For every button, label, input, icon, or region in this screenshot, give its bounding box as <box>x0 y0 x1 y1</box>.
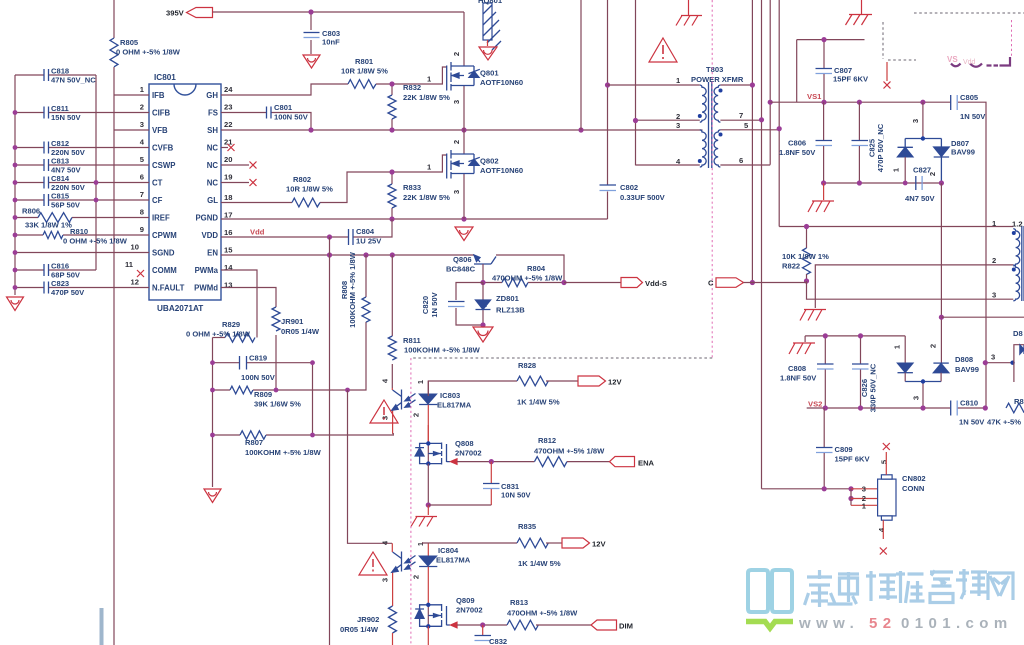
wire CN802 feed row <box>762 488 852 490</box>
svg-text:ZD801: ZD801 <box>496 294 520 303</box>
svg-text:52: 52 <box>869 615 897 632</box>
wire x581 top vertical <box>580 0 582 130</box>
svg-text:3: 3 <box>140 120 144 129</box>
X mark pin11 COMM <box>137 270 144 277</box>
capacitor C820 <box>421 283 483 326</box>
wire R807 to opto pin3 <box>393 433 394 435</box>
svg-text:C802: C802 <box>620 183 638 192</box>
svg-text:2: 2 <box>140 103 144 112</box>
wire T803 sec verticals <box>752 0 779 489</box>
svg-text:NC: NC <box>207 144 219 153</box>
resistor R801 <box>341 57 388 88</box>
svg-text:1: 1 <box>416 379 425 384</box>
svg-text:C832: C832 <box>489 637 507 645</box>
transformer right windings <box>992 219 1024 301</box>
connector CN802 <box>862 452 926 539</box>
svg-text:VS1: VS1 <box>807 92 822 101</box>
svg-text:C809: C809 <box>835 445 853 454</box>
junction dots C808 bus <box>823 333 863 338</box>
capacitor C810 <box>951 399 986 427</box>
svg-text:1: 1 <box>676 76 681 85</box>
svg-text:PWMd: PWMd <box>194 284 218 293</box>
svg-text:3: 3 <box>452 100 461 104</box>
svg-text:4: 4 <box>381 378 390 383</box>
svg-text:R810: R810 <box>70 227 88 236</box>
svg-text:POWER XFMR: POWER XFMR <box>691 75 744 84</box>
svg-text:CIFB: CIFB <box>152 109 171 118</box>
svg-text:Q809: Q809 <box>456 596 475 605</box>
svg-text:0 OHM +-5% 1/8W: 0 OHM +-5% 1/8W <box>116 48 181 57</box>
svg-text:VS: VS <box>947 55 958 64</box>
X mark pin20 NC <box>221 164 249 166</box>
ground below C803 <box>303 55 320 68</box>
svg-text:1U 25V: 1U 25V <box>356 237 382 246</box>
resistor R812 <box>534 436 610 467</box>
wire VS1 row <box>770 102 986 408</box>
junction dots Q808 <box>426 441 430 445</box>
svg-text:6: 6 <box>739 156 743 165</box>
wire R835 row <box>422 542 517 544</box>
svg-text:R802: R802 <box>293 175 311 184</box>
wire to Vdd-S <box>564 282 621 284</box>
svg-text:C818: C818 <box>51 67 69 76</box>
svg-text:EL817MA: EL817MA <box>437 401 472 410</box>
svg-text:18: 18 <box>224 193 232 202</box>
capacitor C801 <box>267 103 309 122</box>
svg-text:GL: GL <box>207 196 218 205</box>
svg-text:33K 1/8W 1%: 33K 1/8W 1% <box>25 221 72 230</box>
resistor R808 vertical <box>340 251 370 328</box>
svg-text:7: 7 <box>140 190 144 199</box>
svg-text:CPWM: CPWM <box>152 231 177 240</box>
junction dot D808 common <box>921 379 925 383</box>
resistor R806 <box>15 207 149 230</box>
wire VDD-EN drop x330 to bottom <box>329 237 331 645</box>
svg-text:1: 1 <box>862 502 867 511</box>
diode D807 BAV99 <box>892 102 975 183</box>
wire pin10 SGND <box>15 252 149 254</box>
wire pin23 FS <box>221 113 311 131</box>
svg-text:12: 12 <box>131 278 139 287</box>
wire right edge partial component <box>1014 345 1024 382</box>
svg-text:0101.com: 0101.com <box>901 615 1013 632</box>
svg-text:C804: C804 <box>356 227 375 236</box>
capacitor C818 <box>15 67 96 85</box>
wire pin17 PGND rail <box>221 218 608 220</box>
svg-text:C812: C812 <box>51 139 69 148</box>
dashed box top right <box>883 13 1024 60</box>
secondary winding C <box>720 85 761 120</box>
svg-text:1N 50V: 1N 50V <box>960 112 986 121</box>
svg-text:BAV99: BAV99 <box>955 365 979 374</box>
wire XFMR right pin2 <box>815 265 1013 308</box>
junction dot R833 top <box>389 169 394 174</box>
svg-text:R832: R832 <box>403 83 421 92</box>
svg-text:5: 5 <box>744 121 749 130</box>
wire 12V row to IC803 pin1 <box>428 381 517 396</box>
heatsink HQ801 <box>478 0 503 50</box>
wire C819 drop x312 <box>312 363 314 435</box>
wire pin24 GH step <box>221 84 348 95</box>
X mark pin19 NC <box>221 182 249 184</box>
wire VS2 row <box>807 407 986 409</box>
junction dots T803 <box>633 82 782 285</box>
svg-text:2N7002: 2N7002 <box>456 606 483 615</box>
wire left long vertical bus x114 <box>113 0 115 645</box>
svg-text:15: 15 <box>224 246 233 255</box>
svg-text:3: 3 <box>381 416 390 420</box>
wire C row <box>744 282 807 284</box>
wire DIM row <box>457 624 507 626</box>
capacitor C804 <box>349 219 393 246</box>
zener ZD801 RLZ13B <box>476 283 526 326</box>
wire pin16 VDD <box>221 236 348 238</box>
transformer T803 <box>608 65 780 168</box>
wire vertical x96 <box>95 75 97 270</box>
junction dots lower-left nets <box>210 360 350 437</box>
X mark top right <box>884 62 891 89</box>
capacitor C803 <box>304 12 341 54</box>
node Vdd-S flag <box>621 278 667 289</box>
capacitor C812 <box>15 139 149 157</box>
svg-text:C815: C815 <box>51 192 70 201</box>
svg-text:ENA: ENA <box>638 459 655 468</box>
wire R822 bottom to XFMR right pin3 <box>807 281 1014 299</box>
ground Q808 chassis <box>411 517 437 527</box>
resistor R810 <box>15 227 149 246</box>
svg-text:3: 3 <box>452 190 461 194</box>
svg-text:22K 1/8W 5%: 22K 1/8W 5% <box>403 193 450 202</box>
svg-text:22: 22 <box>224 120 232 129</box>
svg-text:FS: FS <box>208 109 218 118</box>
svg-text:56P 50V: 56P 50V <box>51 201 81 210</box>
logo glyphs top right <box>951 57 1010 67</box>
wire Q809 source to bottom <box>427 626 429 645</box>
svg-text:3: 3 <box>676 121 680 130</box>
ground C806 chassis <box>823 183 825 200</box>
capacitor C827 <box>905 166 935 204</box>
junction dot R832 top <box>389 81 394 86</box>
primary winding A <box>608 85 700 120</box>
IC op-amp controller U IC801 box <box>125 73 233 313</box>
svg-text:C823: C823 <box>51 279 69 288</box>
resistor R807 <box>213 431 395 457</box>
wire pin22 SH rail <box>221 129 703 131</box>
svg-text:VDD: VDD <box>202 231 219 240</box>
capacitor C813 <box>15 157 149 175</box>
junction dot C807 <box>821 37 826 42</box>
svg-text:1: 1 <box>416 541 425 546</box>
junction dot Vdd node <box>327 234 332 239</box>
svg-text:2: 2 <box>452 140 461 144</box>
svg-text:D8: D8 <box>1013 329 1023 338</box>
junction dots PGND rail <box>389 216 466 221</box>
warning triangle top <box>649 38 677 62</box>
junction dot C831 <box>489 459 494 464</box>
svg-text:Vdd: Vdd <box>963 59 976 66</box>
wire left drop bus x212 <box>212 338 214 488</box>
wire ENA row <box>457 461 535 463</box>
junction dots left bus <box>13 110 99 290</box>
svg-text:CONN: CONN <box>902 484 924 493</box>
svg-text:2: 2 <box>929 344 938 348</box>
svg-text:1: 1 <box>427 75 432 84</box>
resistor R835 <box>517 522 562 568</box>
svg-text:IREF: IREF <box>152 214 170 223</box>
svg-text:VS2: VS2 <box>808 400 822 409</box>
svg-text:R801: R801 <box>355 57 374 66</box>
svg-text:R806: R806 <box>22 207 40 216</box>
svg-text:15PF 6KV: 15PF 6KV <box>835 455 871 464</box>
svg-text:24: 24 <box>224 85 233 94</box>
svg-text:C801: C801 <box>274 103 293 112</box>
resistor R828 <box>517 361 578 407</box>
resistor R832 <box>388 83 450 130</box>
optocoupler IC803 EL817MA <box>381 378 472 443</box>
junction dots R822 <box>804 224 809 229</box>
svg-text:JR901: JR901 <box>281 317 304 326</box>
svg-text:10nF: 10nF <box>322 38 340 47</box>
svg-text:2: 2 <box>412 413 421 417</box>
svg-text:0R05 1/4W: 0R05 1/4W <box>281 327 320 336</box>
capacitor C815 <box>15 192 149 210</box>
svg-text:12V: 12V <box>608 378 622 387</box>
svg-text:14: 14 <box>224 263 233 272</box>
capacitor C832 <box>475 625 508 645</box>
svg-text:CN802: CN802 <box>902 474 926 483</box>
svg-text:R829: R829 <box>222 320 240 329</box>
wire CN802 pin stubs <box>851 489 878 506</box>
junction dot C803 rail <box>308 9 313 14</box>
junction dots Q809 <box>426 603 430 607</box>
svg-text:C: C <box>708 279 714 288</box>
resistor R829 <box>186 320 255 342</box>
svg-text:EN: EN <box>207 249 218 258</box>
svg-text:IFB: IFB <box>152 91 165 100</box>
resistor JR901 <box>272 307 320 390</box>
svg-text:R833: R833 <box>403 183 421 192</box>
svg-text:3: 3 <box>992 291 996 300</box>
svg-text:1N 50V: 1N 50V <box>959 418 985 427</box>
capacitor C807 <box>816 40 869 103</box>
capacitor C831 <box>428 462 531 505</box>
svg-text:3: 3 <box>991 353 995 362</box>
secondary winding D <box>720 130 779 165</box>
svg-text:2: 2 <box>992 256 996 265</box>
svg-text:C805: C805 <box>960 93 979 102</box>
svg-text:470P 50V_NC: 470P 50V_NC <box>876 123 885 172</box>
junction dots VS1 row <box>821 100 925 105</box>
svg-text:SH: SH <box>207 126 218 135</box>
svg-text:5: 5 <box>880 459 889 464</box>
wire pin18 GL step <box>221 155 447 203</box>
X mark CN802 pin5 <box>883 443 890 450</box>
svg-text:C816: C816 <box>51 262 69 271</box>
wire C806 C825 C827 row <box>824 182 942 184</box>
svg-text:BC848C: BC848C <box>446 265 476 274</box>
svg-text:15PF 6KV: 15PF 6KV <box>833 75 869 84</box>
svg-text:3: 3 <box>912 396 921 400</box>
primary winding B <box>636 164 700 166</box>
svg-text:R813: R813 <box>510 598 528 607</box>
resistor R813 <box>507 598 591 630</box>
junction dots SH rail <box>308 127 583 132</box>
wire rail 227 to XFMR right pin1 <box>779 226 1013 228</box>
svg-text:CT: CT <box>152 179 163 188</box>
capacitor C814 <box>15 174 149 192</box>
transistor Q802 MOSFET <box>427 130 523 219</box>
optocoupler IC804 EL817MA <box>381 540 471 606</box>
svg-text:47K +-5%: 47K +-5% <box>987 418 1021 427</box>
svg-text:R828: R828 <box>518 361 536 370</box>
ground XFMR pin2 chassis <box>800 310 826 321</box>
ground top chassis 2 <box>846 0 873 25</box>
svg-text:EL817MA: EL817MA <box>436 556 471 565</box>
svg-text:R811: R811 <box>403 336 422 345</box>
junction dot D807 common <box>921 136 925 140</box>
svg-text:Vdd-S: Vdd-S <box>645 279 667 288</box>
svg-text:100N 50V: 100N 50V <box>241 373 276 382</box>
svg-text:SGND: SGND <box>152 249 175 258</box>
svg-text:470OHM +-5% 1/8W: 470OHM +-5% 1/8W <box>492 274 563 283</box>
svg-text:C811: C811 <box>51 104 70 113</box>
svg-text:3: 3 <box>381 578 390 582</box>
svg-text:395V: 395V <box>166 9 185 18</box>
svg-text:8: 8 <box>140 208 144 217</box>
svg-text:1N 50V: 1N 50V <box>430 291 439 317</box>
watermark book icon <box>748 570 792 612</box>
svg-text:Q806: Q806 <box>453 255 472 264</box>
svg-text:C808: C808 <box>788 364 806 373</box>
capacitor C811 <box>15 104 149 122</box>
capacitor C809 <box>816 408 870 489</box>
resistor R811 vertical <box>388 255 480 388</box>
resistor R809 <box>213 322 367 409</box>
svg-text:10N 50V: 10N 50V <box>501 491 531 500</box>
svg-text:C814: C814 <box>51 174 70 183</box>
wire pin3 VFB <box>114 129 149 131</box>
capacitor C819 <box>213 354 313 383</box>
svg-text:R807: R807 <box>245 438 263 447</box>
wire left bus vertical <box>14 75 16 295</box>
svg-text:9: 9 <box>140 225 144 234</box>
svg-text:N.FAULT: N.FAULT <box>152 284 185 293</box>
wire branch x347 to IC804 <box>348 390 393 543</box>
svg-text:47N 50V_NC: 47N 50V_NC <box>51 76 96 85</box>
wire Q808 source to ground <box>427 464 429 505</box>
svg-text:470P 50V: 470P 50V <box>51 288 85 297</box>
wire pin1 IFB <box>114 94 149 96</box>
svg-text:1: 1 <box>140 85 145 94</box>
ground x212 bottom <box>204 489 221 503</box>
capacitor C805 <box>951 93 987 121</box>
watermark chinese characters <box>805 569 1014 607</box>
svg-text:12V: 12V <box>592 540 606 549</box>
wire pin15 EN <box>221 254 474 256</box>
svg-text:AOTF10N60: AOTF10N60 <box>480 78 523 87</box>
svg-text:1: 1 <box>892 167 901 172</box>
svg-text:19: 19 <box>224 173 232 182</box>
svg-text:4: 4 <box>381 540 390 545</box>
svg-text:DIM: DIM <box>619 622 633 631</box>
warning triangle IC803 <box>370 400 398 423</box>
svg-text:HQ801: HQ801 <box>478 0 503 5</box>
resistor R833 <box>388 172 450 219</box>
junction dots row183 <box>821 180 944 185</box>
svg-text:IC801: IC801 <box>154 73 176 82</box>
svg-text:NC: NC <box>207 179 219 188</box>
svg-text:100KOHM +-5% 1/8W: 100KOHM +-5% 1/8W <box>348 251 357 328</box>
watermark green base <box>746 622 793 629</box>
X mark pin21 NC <box>221 147 228 149</box>
svg-text:Q802: Q802 <box>480 157 499 166</box>
svg-text:3: 3 <box>862 485 866 494</box>
svg-text:10: 10 <box>131 243 139 252</box>
wire pin14 PWMa <box>221 270 257 338</box>
capacitor C808 <box>780 336 834 408</box>
ground ZD801 <box>473 327 493 342</box>
svg-text:11: 11 <box>125 260 134 269</box>
svg-text:CF: CF <box>152 196 163 205</box>
resistor R802 <box>286 175 333 207</box>
svg-text:CSWP: CSWP <box>152 161 175 170</box>
svg-text:Q801: Q801 <box>480 69 499 78</box>
svg-text:Vdd: Vdd <box>250 228 265 237</box>
svg-text:10K 1/8W 1%: 10K 1/8W 1% <box>782 252 829 261</box>
svg-text:D808: D808 <box>955 355 973 364</box>
svg-text:1K 1/4W 5%: 1K 1/4W 5% <box>518 559 561 568</box>
svg-text:C813: C813 <box>51 157 69 166</box>
junction dot branch317 <box>939 315 944 320</box>
svg-text:470OHM +-5% 1/8W: 470OHM +-5% 1/8W <box>534 447 605 456</box>
svg-text:C820: C820 <box>421 296 430 314</box>
svg-text:1K 1/4W 5%: 1K 1/4W 5% <box>517 398 560 407</box>
svg-text:UBA2071AT: UBA2071AT <box>157 304 203 313</box>
ground below Q802 <box>455 227 473 241</box>
svg-text:4N7 50V: 4N7 50V <box>905 194 935 203</box>
ground HQ801 <box>479 47 497 60</box>
svg-text:PWMa: PWMa <box>195 266 219 275</box>
svg-text:R822: R822 <box>782 262 800 271</box>
wire C808 top bus <box>805 335 905 337</box>
wire D808 pin3 branch <box>985 362 1012 364</box>
resistor JR902 <box>340 606 397 645</box>
svg-text:T803: T803 <box>706 65 723 74</box>
svg-text:NC: NC <box>207 161 219 170</box>
junction dot x607 pin1 <box>605 82 610 87</box>
wire pin13 PWMd <box>221 288 276 308</box>
svg-text:PGND: PGND <box>195 214 218 223</box>
transistor Q801 MOSFET <box>427 12 523 130</box>
svg-text:JR902: JR902 <box>357 615 379 624</box>
svg-text:1.2: 1.2 <box>1012 220 1023 229</box>
resistor R822 <box>782 227 829 282</box>
transistor Q808 2N7002 <box>415 425 481 465</box>
svg-text:1.8NF 50V: 1.8NF 50V <box>780 374 817 383</box>
svg-text:R812: R812 <box>538 436 556 445</box>
ground top chassis 1 <box>676 0 702 26</box>
svg-text:R809: R809 <box>254 390 272 399</box>
svg-text:3: 3 <box>911 119 920 123</box>
svg-text:470OHM +-5% 1/8W: 470OHM +-5% 1/8W <box>507 609 578 618</box>
svg-text:IC804: IC804 <box>438 546 459 555</box>
node 12V flag top <box>578 376 622 387</box>
svg-text:22K 1/8W 5%: 22K 1/8W 5% <box>403 93 450 102</box>
svg-text:6: 6 <box>140 173 144 182</box>
wire C807 row <box>797 40 865 103</box>
wire x635 vertical T803 pin2/pin4 <box>635 0 637 165</box>
svg-text:330P 50V_NC: 330P 50V_NC <box>869 363 878 412</box>
